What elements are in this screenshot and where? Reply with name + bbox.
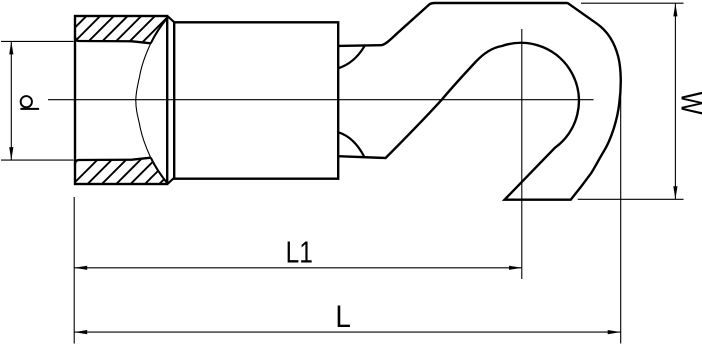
extension line L right (hook rightmost): [620, 93, 622, 344]
metal tongue and hook outline: [338, 3, 621, 200]
arrow L1 left: [74, 266, 87, 270]
barrel inner wall bottom: [75, 158, 151, 165]
barrel flange chamfer bottom: [168, 178, 175, 184]
extension line d bottom: [1, 159, 74, 161]
arrow W top: [673, 3, 677, 16]
funnel chamfer edge top: [151, 17, 168, 43]
centerline hook vertical: [521, 29, 523, 279]
hatch top band: [57, 12, 187, 46]
neck fillet arc top: [338, 46, 365, 68]
svg-text:L1: L1: [286, 235, 313, 269]
crimp barrel outer rectangle: [75, 16, 167, 184]
funnel chamfer edge bottom: [151, 158, 168, 184]
insulation sleeve rectangle: [174, 22, 338, 178]
funnel silhouette curve: [136, 43, 151, 157]
dimension line L1: [74, 267, 522, 269]
dimension line d: [10, 41, 12, 160]
arrow d bottom: [9, 147, 13, 160]
svg-text:L: L: [335, 298, 351, 334]
centerline horizontal: [48, 99, 594, 101]
label d (rotated): [20, 96, 39, 109]
neck fillet arc bottom: [338, 132, 365, 157]
extension line W top: [581, 2, 684, 4]
arrow W bottom: [673, 186, 677, 199]
extension line d top: [1, 40, 74, 42]
arrow L left: [74, 330, 87, 334]
dimension line W: [674, 3, 676, 199]
barrel flange chamfer top: [168, 17, 175, 23]
arrow d top: [9, 41, 13, 54]
hatch bottom band: [69, 154, 203, 188]
dimension line L: [74, 331, 621, 333]
arrow L1 right: [509, 266, 522, 270]
extension line W bottom: [578, 198, 684, 200]
extension line left (for L1 and L): [73, 197, 75, 344]
barrel inner wall top: [75, 37, 151, 44]
svg-text:W: W: [675, 92, 702, 116]
arrow L right: [608, 330, 621, 334]
